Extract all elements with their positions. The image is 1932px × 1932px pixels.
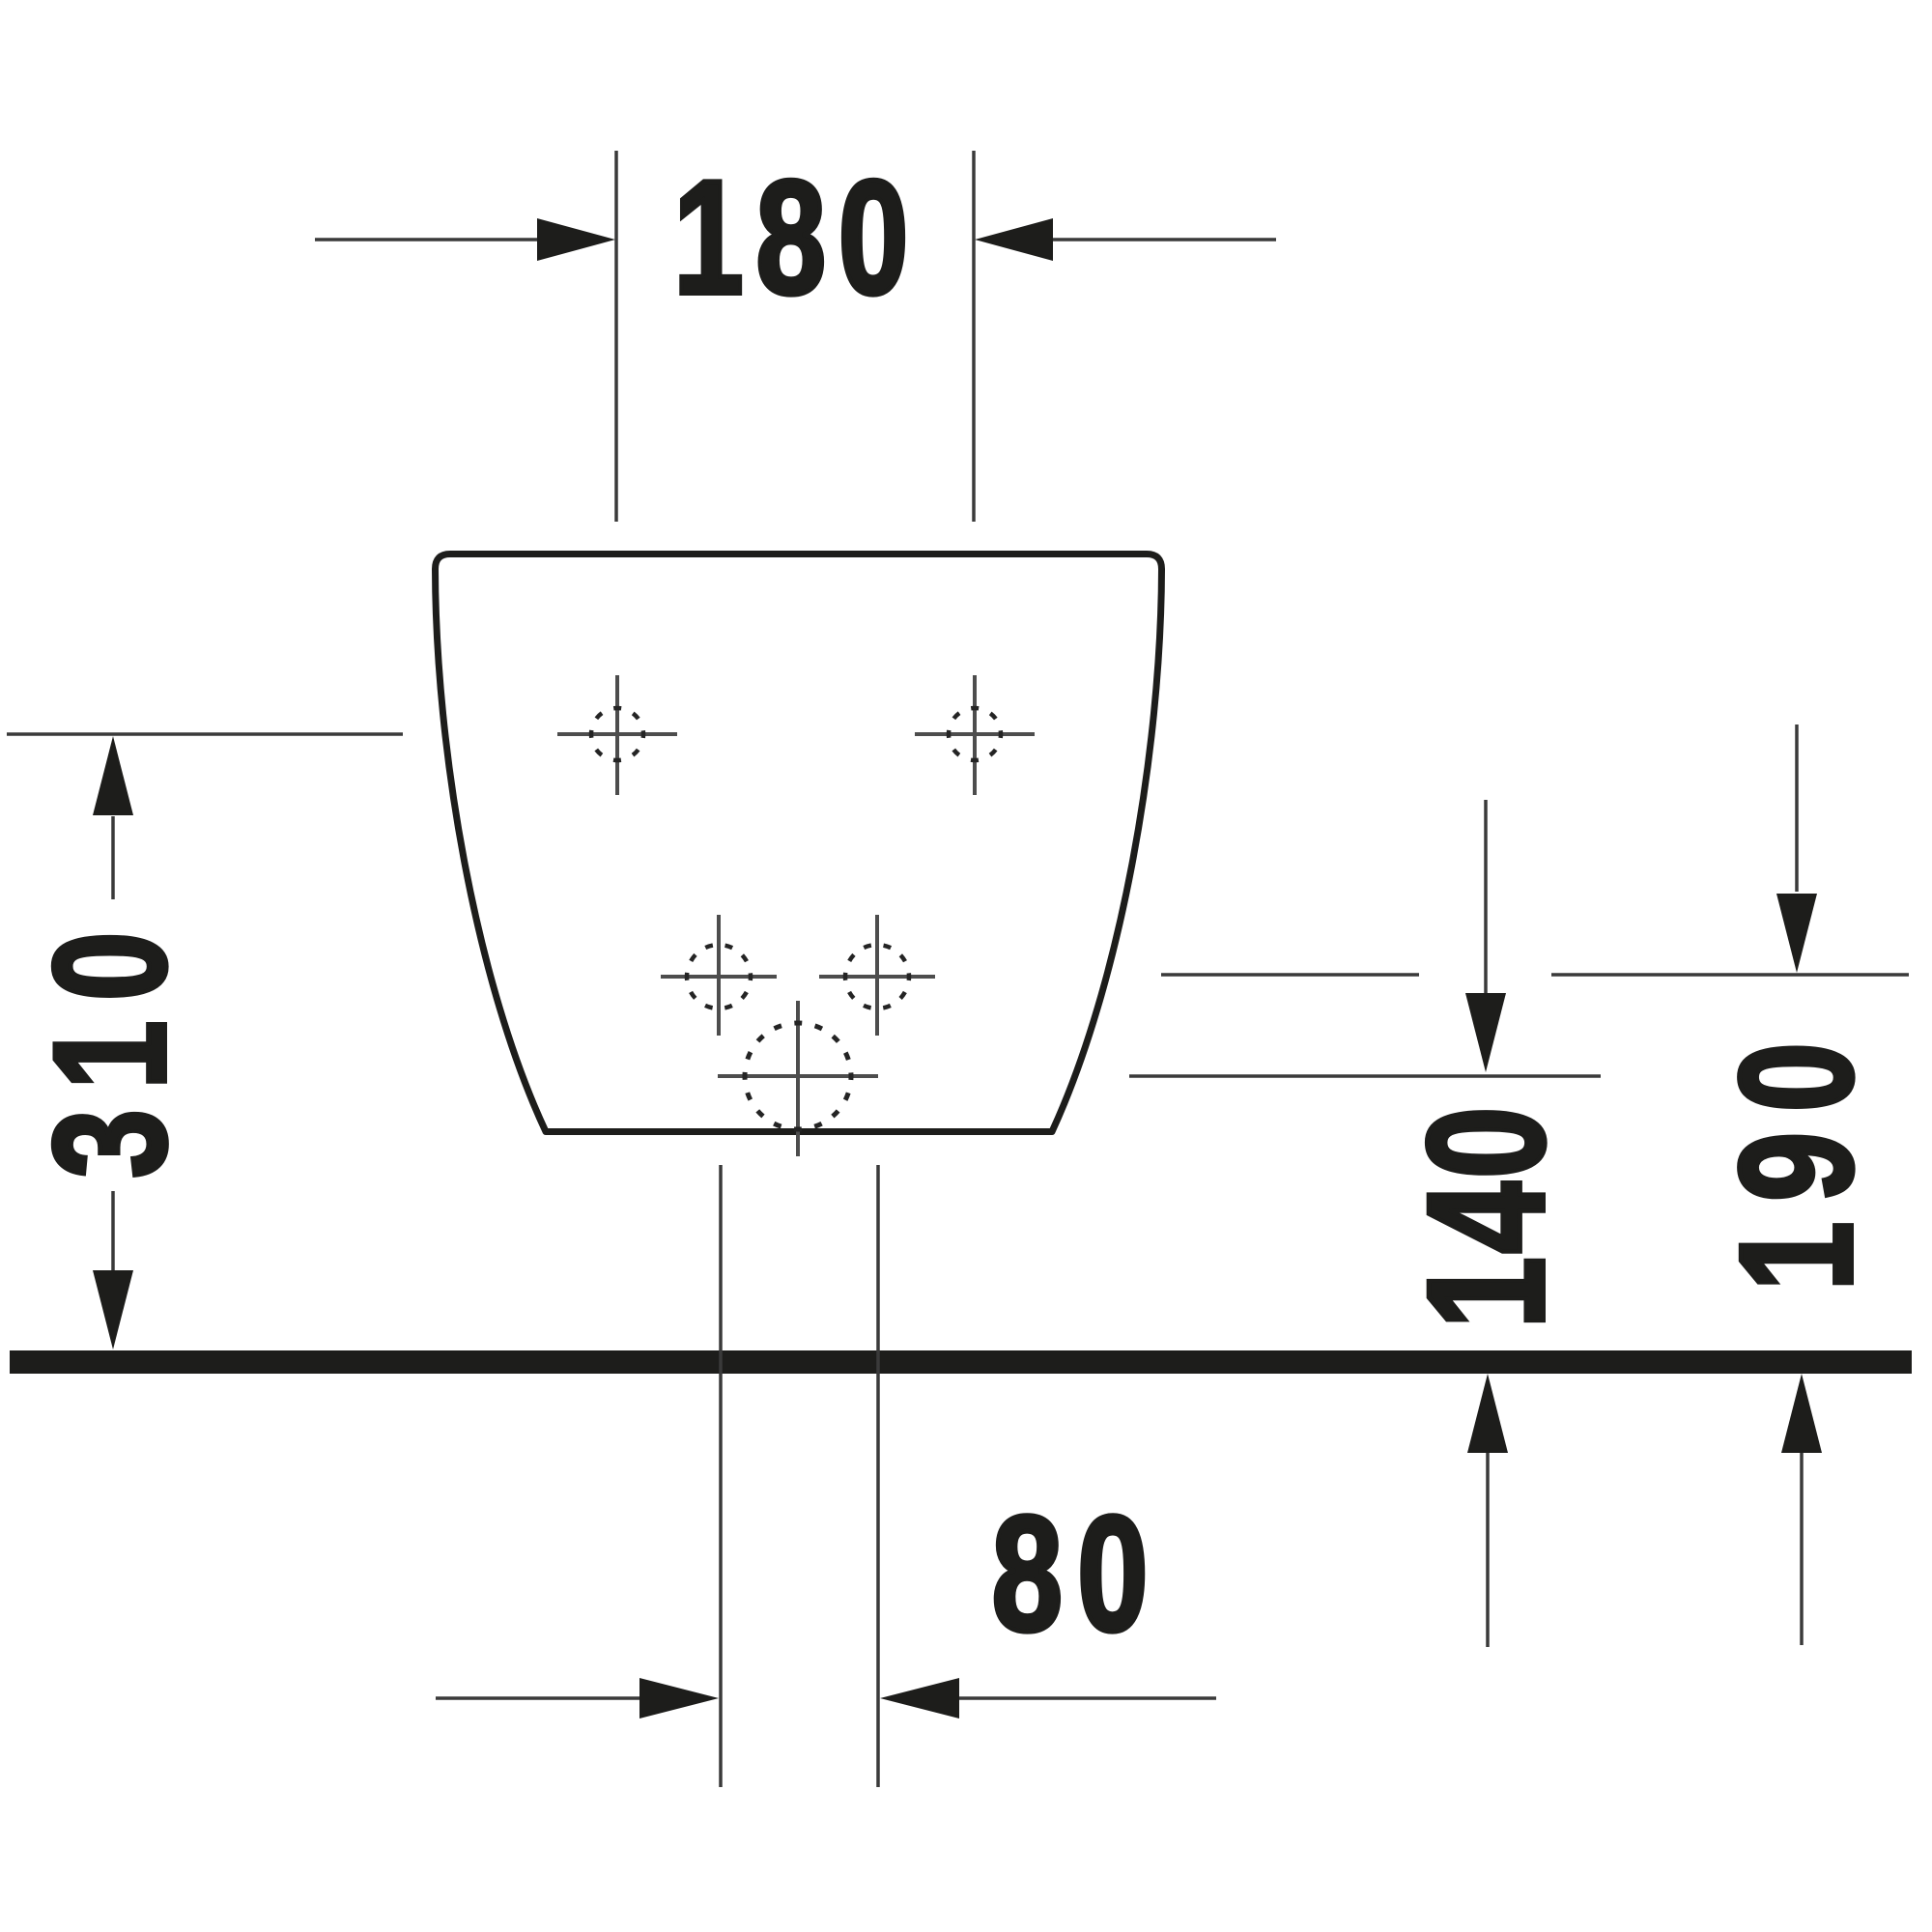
svg-text:140: 140: [1392, 1103, 1578, 1328]
svg-text:310: 310: [21, 912, 199, 1179]
svg-text:80: 80: [991, 1483, 1162, 1666]
svg-text:190: 190: [1706, 1022, 1886, 1291]
svg-text:180: 180: [673, 147, 921, 327]
